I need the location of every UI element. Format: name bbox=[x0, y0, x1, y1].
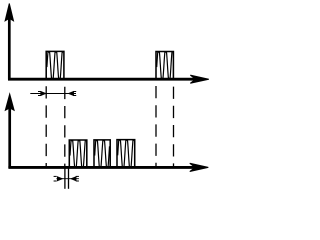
bottom pulse 3 (RF burst) bbox=[117, 140, 135, 168]
delay reference line (bottom pulse 1 edge extension) bbox=[68, 166, 70, 189]
bottom plot time axis (horizontal arrow) bbox=[8, 163, 208, 171]
bottom pulse 2 (RF burst) bbox=[94, 140, 110, 168]
dashed projection line, top pulse 2 left edge bbox=[155, 86, 157, 166]
top pulse 1 (RF burst) bbox=[46, 51, 64, 79]
bottom plot y-axis (vertical arrow) bbox=[5, 94, 14, 168]
right delay arrow with fletching bbox=[71, 176, 79, 181]
top plot time axis (horizontal arrow) bbox=[8, 75, 209, 83]
dashed projection line, top pulse 2 right edge bbox=[173, 87, 175, 166]
dashed projection line, top pulse 1 right edge bbox=[64, 87, 66, 166]
left dimension arrow with fletching bbox=[38, 91, 46, 95]
delay reference line (dashed line extension) bbox=[64, 166, 66, 189]
pulse-width dimension line bbox=[30, 93, 76, 95]
top pulse 2 (RF burst) bbox=[156, 52, 173, 80]
dashed projection line, top pulse 1 left edge bbox=[45, 86, 47, 166]
bottom pulse 1 (RF burst) bbox=[69, 140, 87, 168]
delay dimension line bbox=[56, 178, 79, 180]
right dimension arrow with fletching bbox=[68, 91, 76, 95]
left delay arrow with fletching bbox=[54, 176, 63, 181]
top plot y-axis (vertical arrow) bbox=[5, 4, 13, 80]
